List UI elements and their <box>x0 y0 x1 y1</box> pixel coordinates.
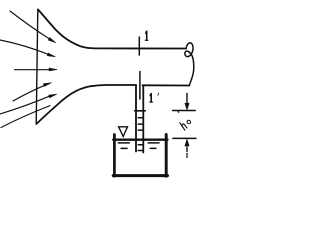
tank water dashes right <box>148 143 159 149</box>
tube liquid dashes <box>138 118 142 151</box>
tank left wall <box>113 135 116 177</box>
prime mark <box>157 93 159 96</box>
streamline arrow S3 <box>15 69 51 71</box>
lower bell-mouth curve and pipe bottom wall (left of tube) <box>36 85 136 124</box>
label h0 (rotated, hand-drawn) <box>178 117 191 131</box>
h0 up arrow <box>186 147 188 157</box>
pipe broken-end squiggle with loop <box>185 43 194 86</box>
piezometer tube left wall <box>135 85 137 152</box>
h0 down arrow <box>186 94 188 104</box>
label 1 (pipe section) <box>145 31 149 41</box>
h0 bottom extension line <box>173 137 196 139</box>
streamline arrow S2 <box>0 40 49 55</box>
streamline arrow S5 <box>0 96 50 114</box>
streamline arrow S4 <box>13 85 45 101</box>
section tick 1 <box>138 37 140 55</box>
label 1' (tube section) <box>149 93 159 103</box>
streamline S6 (no head, ends at bell lip) <box>1 106 50 128</box>
water level symbol (nabla) <box>119 127 128 137</box>
water surface line <box>113 139 167 141</box>
h0 top extension line <box>173 110 196 112</box>
pipe bottom wall right segment <box>143 84 190 86</box>
upper bell-mouth curve and pipe top wall <box>38 10 186 49</box>
small tick below top extension line <box>177 111 180 112</box>
tube meniscus level line <box>135 110 146 112</box>
inlet plane vertical line <box>36 10 38 125</box>
tank water dashes left <box>118 143 129 149</box>
streamline arrow S1 <box>10 11 50 39</box>
section tick 1' <box>139 72 141 100</box>
tank bottom <box>113 174 167 177</box>
piezometer tube right wall <box>142 85 144 152</box>
tank right wall <box>165 135 168 177</box>
